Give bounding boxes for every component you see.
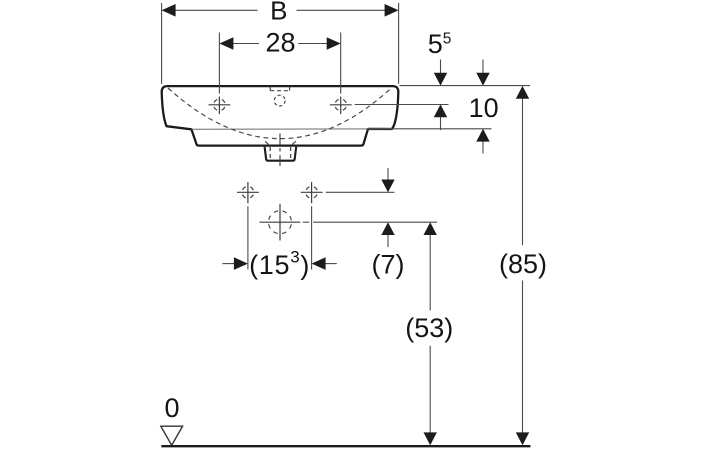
dimension (15-3) [222, 263, 234, 265]
svg-text:(153): (153) [249, 247, 310, 280]
dimension (85) [516, 86, 529, 99]
bolt level reference line [326, 191, 395, 193]
basin front step line [191, 128, 392, 130]
washbasin outline (front view) [162, 86, 399, 146]
svg-text:B: B [270, 0, 287, 25]
overflow dashed circle [274, 95, 285, 106]
drain centerline [279, 134, 281, 167]
svg-text:(53): (53) [405, 313, 453, 343]
svg-text:(85): (85) [499, 249, 547, 279]
dimension (15-3) extension lines [247, 206, 249, 269]
svg-text:28: 28 [265, 28, 295, 58]
overflow slot dashed [270, 90, 289, 92]
dimension 28 [218, 33, 220, 94]
svg-text:10: 10 [469, 93, 499, 123]
dimension 10 [482, 60, 484, 74]
ground line [161, 445, 530, 447]
left tap hole [209, 104, 231, 106]
datum triangle [161, 426, 183, 445]
drain fitting hidden edges [269, 147, 271, 160]
dimension B [161, 3, 163, 84]
right tap hole [330, 104, 352, 106]
drain funnel dashes [265, 141, 269, 144]
left bolt hole [237, 191, 259, 193]
basin interior dashed curve [168, 88, 392, 139]
dimension (7) [387, 168, 389, 180]
step level reference line [392, 128, 492, 130]
svg-text:0: 0 [164, 393, 179, 423]
drain hole centerlines [260, 221, 301, 223]
dimension (53) [424, 222, 437, 235]
drain fitting below basin [265, 147, 297, 161]
drain level reference line [303, 221, 309, 223]
top reference line [400, 85, 531, 87]
tap level reference line [355, 104, 449, 106]
drain hole dashed circle [269, 211, 292, 234]
svg-text:(7): (7) [372, 250, 405, 280]
right bolt hole [301, 191, 323, 193]
dimension 5-5 [440, 60, 442, 74]
